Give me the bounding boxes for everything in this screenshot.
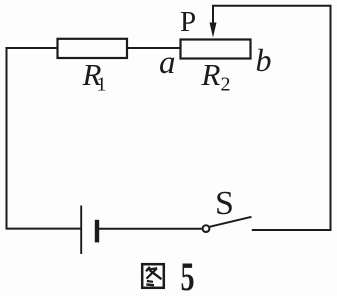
battery: short thick plate (-) (95, 220, 99, 243)
wiper P: vertical wire from top wire down to arrow (212, 6, 214, 25)
wire: bottom-right horizontal from switch to right corner (252, 229, 332, 231)
svg-text:a: a (159, 45, 176, 81)
switch S: blade (210, 217, 252, 227)
battery: long thin plate (+) (80, 206, 82, 255)
switch S: pivot circle (203, 225, 210, 232)
wire: battery to switch (99, 228, 204, 230)
svg-text:P: P (180, 6, 196, 38)
wire: bottom-left horizontal to battery (6, 228, 82, 230)
wire: top horizontal to top-right corner (212, 5, 331, 7)
wire: top-left horizontal to R1 (6, 47, 59, 49)
svg-text:b: b (256, 42, 272, 78)
svg-text:R1: R1 (82, 57, 107, 96)
wiper P: arrowhead onto R2 (210, 23, 217, 38)
caption: character 图 (drawn strokes) (142, 264, 164, 288)
wire: R1 to R2 (node a) (127, 47, 181, 49)
svg-text:5: 5 (181, 254, 195, 296)
wire: right vertical side (330, 5, 332, 231)
wire: left vertical side (6, 47, 8, 230)
resistor R1 (58, 39, 128, 58)
svg-text:S: S (215, 185, 234, 222)
svg-text:R2: R2 (201, 57, 231, 96)
potentiometer R2 (181, 40, 251, 59)
